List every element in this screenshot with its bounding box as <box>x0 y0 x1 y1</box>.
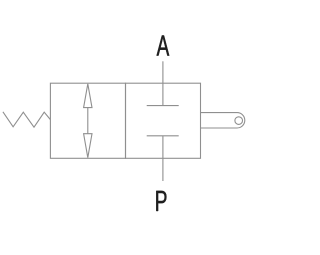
roller circle <box>235 117 243 125</box>
port P line <box>162 136 164 181</box>
flow arrow shaft <box>87 107 89 134</box>
return spring <box>3 112 51 127</box>
blocked port P bar <box>147 135 179 137</box>
port label P <box>156 191 166 211</box>
valve body: left position box <box>50 83 125 158</box>
flow arrow head up <box>84 84 92 108</box>
flow arrow head down <box>84 134 92 158</box>
blocked port A bar <box>147 105 179 107</box>
valve body: right position box <box>126 83 201 158</box>
port A line <box>162 61 164 105</box>
roller plunger actuator <box>201 113 245 128</box>
port label A <box>157 35 170 55</box>
